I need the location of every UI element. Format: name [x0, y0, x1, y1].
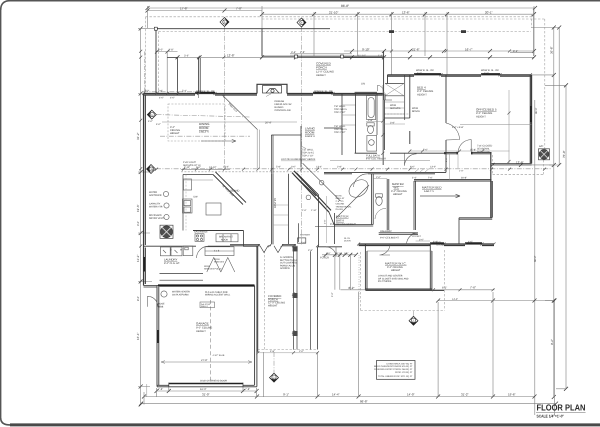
eave post mark 2: [461, 30, 466, 33]
nook cabinet divider: [223, 234, 231, 242]
office nook east step: [492, 164, 532, 165]
svg-text:7'-8": 7'-8": [245, 388, 250, 391]
water heater circle: [161, 291, 167, 297]
svg-text:HOSE: HOSE: [158, 303, 165, 306]
svg-text:1'-6": 1'-6": [326, 252, 331, 255]
svg-text:17'-8": 17'-8": [180, 7, 188, 11]
svg-text:HALLWAY: HALLWAY: [380, 230, 392, 233]
living east wall x342: [341, 94, 343, 156]
dimension right extension from office wall: [531, 75, 559, 301]
svg-text:9'-0" CEILING HEIGHT: 9'-0" CEILING HEIGHT: [330, 223, 356, 226]
svg-text:2'-8": 2'-8": [302, 209, 307, 212]
shower bench: [297, 238, 305, 243]
svg-text:31'-2": 31'-2": [461, 392, 469, 396]
svg-text:HEIGHT: HEIGHT: [417, 93, 427, 96]
AC unit X-box: [539, 149, 550, 160]
svg-text:1'-8": 1'-8": [300, 51, 305, 54]
roof dashed wic left vertical: [360, 252, 362, 311]
water softener circle2: [164, 203, 169, 208]
svg-text:HEIGHT: HEIGHT: [268, 305, 278, 308]
svg-text:9'-0" CEILING HT: 9'-0" CEILING HT: [380, 237, 399, 240]
svg-text:NOOK: NOOK: [221, 238, 228, 241]
svg-text:1'-6": 1'-6": [378, 54, 383, 57]
svg-text:2'-0": 2'-0": [376, 176, 381, 179]
svg-text:2'-0": 2'-0": [299, 350, 304, 353]
porch edge mid horizontal y56: [262, 56, 384, 57]
wic east wall x431: [430, 244, 432, 290]
roof overhang dashed left vertical2: [158, 32, 160, 94]
svg-text:SHOWER: SHOWER: [300, 234, 310, 237]
kitchen range: [195, 234, 204, 242]
laundry south wall thin: [144, 285, 159, 287]
ticks row3b: [350, 55, 536, 59]
page edge corner top-left: [1, 1, 10, 10]
svg-text:TOP 2' 10": TOP 2' 10": [334, 111, 346, 114]
svg-text:DRYER VENT: DRYER VENT: [149, 217, 164, 220]
svg-text:WIRING ACCENT WALL: WIRING ACCENT WALL: [205, 294, 231, 297]
front wall right segment y93.5: [287, 94, 384, 96]
section diamond top B: [297, 18, 306, 27]
garage note box: [200, 302, 215, 308]
svg-text:BED 4: BED 4: [417, 86, 426, 90]
svg-text:15'-8": 15'-8": [470, 148, 476, 151]
roof dashed wic corner vertical: [443, 250, 445, 311]
wic inner north shelf: [367, 250, 432, 252]
svg-text:36'-8": 36'-8": [550, 46, 554, 54]
bath dim vertical x326.3: [325, 196, 327, 243]
svg-text:WDW: WDW: [390, 104, 397, 107]
svg-text:WALLS: WALLS: [201, 305, 208, 308]
window office east: [530, 106, 532, 122]
svg-text:LIN: LIN: [361, 83, 365, 86]
dimension row entry top 3-4: [290, 55, 296, 57]
mini dim office y151: [446, 150, 510, 152]
garage door jambs: [169, 383, 243, 387]
office interior dim vertical x509: [508, 90, 510, 164]
svg-text:14'-0": 14'-0": [407, 392, 415, 396]
svg-text:7'-6": 7'-6": [470, 286, 476, 290]
svg-text:WALL AT: WALL AT: [336, 197, 346, 200]
dining tray ceiling dashed rect: [168, 104, 225, 141]
svg-text:OF CLOSET SHELVING AND: OF CLOSET SHELVING AND: [378, 277, 409, 280]
porch east wall x310.5: [310, 251, 312, 349]
section diamond top A: [220, 18, 229, 27]
svg-text:ISLAND: ISLAND: [230, 190, 239, 193]
svg-text:76'-0": 76'-0": [562, 150, 566, 158]
range burners: [196, 235, 198, 237]
svg-text:ROOM: ROOM: [305, 131, 315, 135]
svg-text:RECESSED: RECESSED: [149, 214, 162, 217]
corridor wall y173: [324, 172, 446, 173]
dimension top row3 over right block 9'-10/21'-6: [344, 50, 534, 52]
svg-text:4 x 8: 4 x 8: [214, 249, 220, 252]
svg-text:19'-6": 19'-6": [508, 392, 516, 396]
roof dashed patio left: [492, 155, 494, 175]
laundry north wall y246.2: [144, 245, 231, 247]
kitchen island: [206, 203, 221, 215]
svg-text:7'-8": 7'-8": [158, 388, 163, 391]
kitchen angled bar: [213, 172, 246, 205]
porch post line vertical x167: [166, 52, 168, 94]
svg-text:MASTER BED: MASTER BED: [422, 186, 442, 190]
master vanity sink1: [319, 180, 324, 185]
office west wall x446: [445, 75, 447, 173]
svg-text:31'-0": 31'-0": [202, 392, 210, 396]
dimension ticks bottom row3: [139, 402, 558, 406]
fireplace bump walls: [257, 84, 287, 93]
area table box: [377, 361, 416, 380]
living west block east wall x301: [300, 126, 302, 168]
dimension right outermost x566: [565, 85, 567, 389]
svg-text:ON PLATFORM: ON PLATFORM: [172, 293, 189, 296]
master bath garden tub: [346, 176, 372, 201]
dimension tick top outer left: [146, 6, 538, 10]
laundry cabinet: [183, 246, 193, 256]
extension to x566 top: [545, 84, 566, 86]
front left corner mini ticks: [142, 92, 200, 95]
svg-text:14'-0": 14'-0": [452, 298, 458, 301]
svg-text:SHELVES PULLS: SHELVES PULLS: [204, 267, 222, 270]
rear hall verticals: [335, 255, 350, 290]
svg-text:2'-0": 2'-0": [158, 49, 163, 52]
svg-text:TRANSITIONAL: TRANSITIONAL: [336, 205, 353, 208]
full bath toilet tank: [367, 123, 374, 126]
porch east wall x317.5: [317, 247, 319, 350]
svg-text:4'-0": 4'-0": [468, 240, 473, 243]
svg-text:12'-8": 12'-8": [227, 54, 235, 58]
wood floor arrow: [201, 139, 236, 142]
svg-text:9'-1": 9'-1": [283, 392, 289, 396]
svg-text:5'-4": 5'-4": [182, 90, 187, 93]
full bath west wall x355.5: [355, 94, 357, 154]
page edge border top: [10, 0, 600, 2]
roof dashed wic corner horizontal: [361, 310, 445, 312]
laundry south header thick: [158, 284, 255, 286]
dimension ticks bottom row1: [155, 389, 259, 393]
svg-text:HEIGHT: HEIGHT: [391, 269, 401, 272]
svg-text:BY OTHERS: BY OTHERS: [378, 280, 392, 283]
mud bench divider: [205, 250, 234, 252]
svg-text:3'-6": 3'-6": [184, 55, 189, 58]
dimension row rear hall y254.8: [322, 254, 356, 256]
svg-text:4 1/2" SLAB: 4 1/2" SLAB: [213, 354, 225, 357]
svg-text:SDNG R. SL. OP.: SDNG R. SL. OP.: [314, 90, 333, 93]
master bath diagonal wall: [292, 171, 331, 212]
porch screen post1: [293, 246, 298, 251]
roof overhang dashed left vertical: [145, 17, 147, 94]
svg-text:3'-0": 3'-0": [137, 221, 140, 226]
svg-text:4'-0": 4'-0": [170, 96, 175, 99]
section diamond left D: [147, 165, 156, 174]
svg-text:3'-0": 3'-0": [419, 238, 424, 241]
dimension top row2 right: [262, 13, 534, 15]
garage center dash line: [210, 300, 212, 380]
svg-text:5'-0": 5'-0": [301, 242, 306, 245]
svg-text:SDNG R. SL. OP.: SDNG R. SL. OP.: [196, 90, 215, 93]
porch bottom mini dims: [258, 352, 318, 354]
full bath toilet: [368, 126, 374, 134]
dimension row over porch 3-4 segs: [290, 53, 352, 55]
dimension ticks top row5: [155, 50, 298, 60]
section stub to diamond F: [413, 311, 415, 316]
master bath door swing diagonal: [303, 163, 341, 201]
porch west edge x257.8: [257, 246, 259, 352]
shower north lip: [315, 226, 335, 228]
linen shelves living side: [342, 105, 356, 125]
svg-text:4'-0": 4'-0": [156, 123, 161, 126]
svg-text:1'-0": 1'-0": [459, 169, 464, 172]
roof overhang dashed right vertical2: [531, 15, 533, 28]
svg-text:BLDG GARAGE/STORAGE 576 SQ FT: BLDG GARAGE/STORAGE 576 SQ FT: [374, 365, 413, 368]
svg-text:GARAGE: GARAGE: [196, 322, 209, 326]
full bath vanity counter: [367, 136, 377, 152]
svg-text:FOYER: FOYER: [320, 257, 329, 260]
dimension right mid col 20'-1 extension: [533, 8, 535, 56]
svg-text:14x13'-6: 14x13'-6: [199, 131, 209, 134]
svg-text:SL GL: SL GL: [344, 237, 351, 240]
svg-text:14'-4": 14'-4": [332, 392, 340, 396]
laundry dryer: [171, 247, 182, 256]
office door jambs: [457, 152, 472, 155]
kitchen fridge: [184, 179, 192, 190]
fireplace box: [263, 86, 282, 94]
svg-text:5'-0" x 6'-8": 5'-0" x 6'-8": [452, 126, 464, 129]
dimension ticks left outer: [139, 27, 143, 407]
tick slashes row y57.3: [197, 56, 264, 59]
svg-text:16'-1": 16'-1": [136, 332, 140, 340]
svg-text:WDW: WDW: [214, 258, 221, 261]
mini dim hallway y241: [416, 240, 430, 242]
master bed dim verticals: [450, 153, 458, 180]
bed4 top wall y74.8: [388, 75, 532, 76]
svg-text:11'-10": 11'-10": [358, 54, 366, 57]
wc door arc: [375, 208, 386, 219]
svg-text:2'-8": 2'-8": [368, 119, 373, 122]
roof overhang dashed right vertical: [544, 19, 546, 160]
garage west wall x157: [157, 286, 159, 387]
bath hall door arc: [354, 174, 369, 187]
kitchen west counter line: [182, 175, 184, 231]
kitchen sink double basin: [183, 199, 193, 213]
bed4 west wall x410: [409, 75, 411, 144]
dimension top row5 12'-8": [178, 56, 297, 58]
svg-text:HEIGHT: HEIGHT: [170, 132, 180, 135]
svg-text:20'-8": 20'-8": [461, 177, 467, 180]
kitchen counter second line: [183, 179, 213, 181]
office south wall y153: [444, 152, 492, 153]
garage window west: [157, 330, 159, 343]
svg-text:4'-8": 4'-8": [270, 350, 275, 353]
roof dashed patio bottom: [493, 174, 544, 176]
tick slashes row y169.3: [155, 168, 546, 171]
svg-text:LIVING AREA 2257 SQ FT: LIVING AREA 2257 SQ FT: [386, 362, 413, 365]
svg-text:36'-0": 36'-0": [535, 107, 538, 114]
leader line elementary note: [330, 160, 430, 162]
svg-text:2'-10": 2'-10": [184, 166, 190, 169]
svg-text:NOTE:: NOTE:: [336, 195, 343, 198]
bed4 door arc: [405, 154, 417, 166]
svg-text:HEIGHT: HEIGHT: [196, 330, 206, 333]
svg-text:W/C: W/C: [394, 185, 399, 189]
nook cabinets: [216, 234, 238, 242]
dimension bottom extension verticals: [144, 292, 493, 405]
svg-text:27'-8": 27'-8": [201, 359, 208, 362]
washer dryer marks: [163, 250, 178, 253]
dotted vertical x359: [358, 255, 360, 300]
water softener circle3: [164, 214, 169, 219]
svg-text:2'-8": 2'-8": [169, 49, 174, 52]
svg-text:3'-4": 3'-4": [291, 51, 296, 54]
master hall door arc: [407, 233, 419, 245]
roof dashed porch west: [264, 251, 266, 350]
dimension ticks top row3: [350, 49, 536, 53]
svg-text:LIST OF ELEMENTARY ABOVE: LIST OF ELEMENTARY ABOVE: [281, 158, 316, 161]
svg-text:HEIGHT: HEIGHT: [316, 74, 326, 77]
svg-text:12'-6": 12'-6": [516, 161, 524, 165]
full bath north wall y92.5: [355, 91, 377, 93]
svg-text:16'-7": 16'-7": [465, 47, 473, 51]
svg-text:4'-0": 4'-0": [148, 120, 153, 123]
svg-text:8'-2": 8'-2": [349, 286, 355, 290]
living dim line y120.5: [162, 121, 297, 123]
svg-text:13'-4": 13'-4": [316, 166, 322, 169]
office dim row y124.4: [460, 123, 532, 125]
kitchen nook south wall y230.5: [193, 230, 244, 232]
dimension top row4 small: [157, 51, 178, 53]
closet rod diagonals: [415, 169, 429, 172]
dimension top row2 left 17'-8": [148, 10, 263, 12]
svg-text:6'-0": 6'-0": [417, 72, 422, 75]
svg-text:1'-6": 1'-6": [344, 252, 349, 255]
section cut line A vertical: [224, 27, 226, 168]
dimension row wic 7'-6: [341, 289, 495, 291]
svg-text:9'-2": 9'-2": [550, 339, 554, 345]
dimension right outer 36'-8 pair: [553, 28, 555, 398]
page edge border bottom: [10, 423, 600, 426]
section cut line B vertical: [301, 27, 303, 245]
dimension row right 8'-2: [510, 52, 534, 54]
svg-text:7'-8": 7'-8": [236, 7, 242, 11]
window front wall right: [313, 92, 333, 94]
bath diag to wall connector: [329, 212, 334, 224]
garage east wall double: [255, 246, 257, 386]
wic south wall y289.8: [365, 289, 444, 291]
section diamond left C: [147, 110, 156, 119]
pantry west wall x272: [271, 174, 273, 245]
svg-text:3'-2": 3'-2": [331, 292, 334, 297]
dimension top row3b y57.3 right: [344, 56, 534, 58]
foyer door arc1: [326, 247, 336, 257]
kitchen north counter line: [183, 174, 213, 176]
dimension left outer 66'-8 vertical: [140, 29, 142, 405]
dimension ticks bottom row2: [142, 395, 537, 399]
svg-text:FULL BATH: FULL BATH: [366, 155, 380, 158]
svg-text:WATER: WATER: [149, 191, 157, 194]
section cut line D horizontal long: [156, 168, 552, 170]
svg-text:CEILING: CEILING: [336, 203, 345, 206]
master bed east wall x491.5: [491, 152, 492, 217]
window master south1: [430, 242, 444, 244]
svg-text:WDW: WDW: [204, 265, 211, 268]
master WC toilet tank: [376, 194, 383, 197]
water heater platform X-box: [160, 225, 173, 238]
foyer wall y246.8: [318, 246, 343, 248]
svg-text:3'-0": 3'-0": [291, 166, 296, 169]
svg-text:8'-0": 8'-0": [137, 296, 140, 301]
tray ceiling diagonal: [223, 96, 258, 130]
dimension row patio 12'-6: [493, 164, 554, 166]
svg-text:SHELVES: SHELVES: [214, 260, 224, 263]
roof overhang dashed top line2: [262, 18, 545, 20]
window bed4 top1: [414, 73, 441, 75]
svg-text:2'-8": 2'-8": [158, 90, 163, 93]
gallery east wall x318: [318, 195, 320, 247]
entry step wall x177.5: [177, 57, 179, 95]
svg-text:2x SCREEN: 2x SCREEN: [280, 256, 293, 259]
gallery angled wall: [294, 173, 319, 196]
dimension extension verticals top: [148, 6, 535, 75]
linen closet X marks: [385, 84, 404, 96]
svg-text:86'-8": 86'-8": [341, 4, 349, 8]
dimension right outer second: [558, 28, 560, 166]
porch screen post3: [293, 331, 298, 336]
section diamond bottom E: [270, 373, 279, 382]
svg-text:7'-0": 7'-0": [423, 148, 428, 151]
living west block top wall y135: [271, 134, 301, 136]
dash-dot dining lower: [160, 135, 250, 137]
svg-text:4'-0": 4'-0": [159, 96, 164, 99]
window front wall left: [195, 92, 215, 94]
svg-text:TOP 2' 10": TOP 2' 10": [334, 131, 346, 134]
pantry east wall x288.5: [288, 174, 290, 245]
svg-text:BENCH: BENCH: [412, 110, 420, 113]
svg-text:3'-0": 3'-0": [145, 90, 150, 93]
svg-text:8'-0" CLG. HT.: 8'-0" CLG. HT.: [164, 262, 180, 265]
svg-text:16'-4": 16'-4": [223, 166, 229, 169]
mud closet bifold doors: [207, 258, 235, 273]
master notch wall x459: [458, 218, 460, 244]
svg-text:5'-8": 5'-8": [276, 166, 281, 169]
svg-text:20'-1": 20'-1": [485, 10, 493, 14]
svg-text:BUTTON THRU-: BUTTON THRU-: [280, 259, 297, 262]
entry dim ticks: [256, 244, 319, 247]
corridor north wall y153.2: [355, 152, 446, 154]
dimension left inner dash-dot: [144, 52, 146, 94]
ticks rear hall: [324, 253, 358, 257]
svg-text:WATER HTR: WATER HTR: [149, 205, 163, 208]
svg-text:LAUNDRY: LAUNDRY: [164, 258, 177, 262]
svg-text:3'-8": 3'-8": [390, 121, 395, 124]
svg-text:FLOOR PLAN: FLOOR PLAN: [537, 403, 586, 413]
kitchen hall wall y246.2 mid: [243, 245, 258, 247]
bed4 closet shelf dashed: [384, 113, 410, 115]
svg-text:2'-8": 2'-8": [337, 166, 342, 169]
master WC toilet: [376, 197, 382, 206]
dimension right col lower2: [554, 301, 556, 416]
svg-text:SCREEN: SCREEN: [280, 267, 290, 270]
water softener circle1: [163, 191, 168, 196]
section diamond bottom F: [409, 316, 418, 325]
dimension ticks top row2: [146, 9, 537, 17]
master notch wall y217.8: [459, 218, 492, 219]
svg-text:2'-10": 2'-10": [311, 209, 317, 212]
roof dashed porch bottom eave: [258, 349, 318, 351]
bath south wall y224.5: [334, 225, 373, 227]
entry step wall y57.4: [167, 56, 177, 58]
window master south2: [465, 242, 482, 244]
svg-text:16'x8' OVERHEAD DOOR: 16'x8' OVERHEAD DOOR: [200, 380, 227, 383]
dimension right col lower: [534, 100, 536, 415]
